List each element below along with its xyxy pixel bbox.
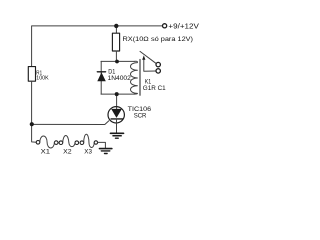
svg-text:X1: X1 xyxy=(41,149,51,156)
svg-text:D1: D1 xyxy=(108,69,116,75)
svg-text:G1R C1: G1R C1 xyxy=(143,85,166,92)
svg-text:100K: 100K xyxy=(36,75,49,81)
svg-text:RX(10Ω só para 12V): RX(10Ω só para 12V) xyxy=(123,36,194,43)
svg-text:1N4002: 1N4002 xyxy=(108,76,132,82)
svg-text:X3: X3 xyxy=(84,148,92,155)
svg-text:+9/+12V: +9/+12V xyxy=(168,23,199,30)
svg-text:SCR: SCR xyxy=(134,112,147,119)
svg-text:X2: X2 xyxy=(63,148,72,155)
